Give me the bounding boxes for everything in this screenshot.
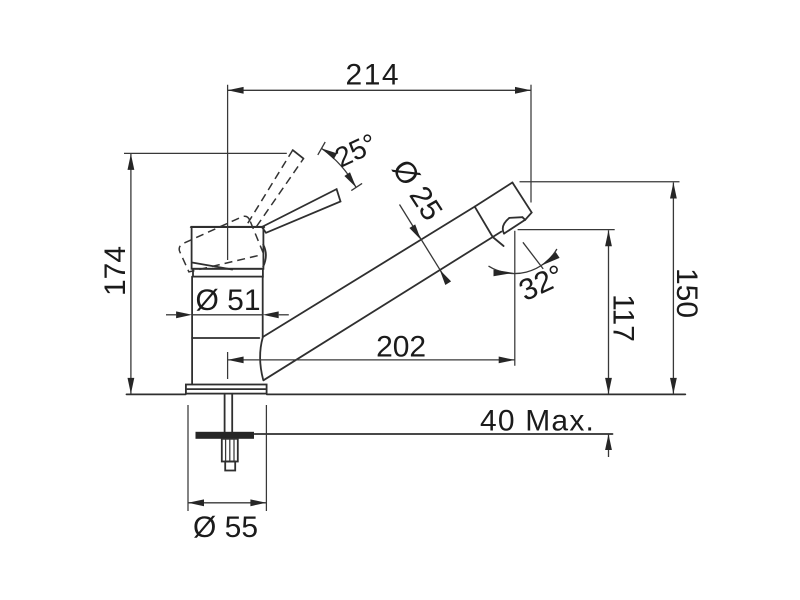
dashed tilted head right edge bbox=[250, 222, 264, 257]
spout outlet face bbox=[512, 183, 531, 220]
dim 40 Max bbox=[480, 405, 612, 458]
dim 174 bbox=[99, 153, 287, 394]
washer plate bbox=[196, 432, 255, 439]
head pivot boss arc bbox=[263, 245, 266, 267]
dim 32 degrees bbox=[489, 242, 570, 308]
counter max-thickness line bbox=[255, 433, 613, 435]
solid handle lever bbox=[262, 189, 341, 233]
dashed tilted head outline (raised position) bbox=[179, 216, 262, 272]
aerator exit face bbox=[504, 220, 525, 234]
aerator notch bbox=[522, 217, 525, 220]
spout tube lower edge bbox=[263, 232, 501, 381]
body rear concave curve bbox=[260, 337, 263, 380]
faucet head body bbox=[191, 227, 264, 270]
spout tube upper edge bbox=[263, 207, 475, 338]
base flange bbox=[186, 385, 267, 394]
dashed handle lever (raised position) bbox=[248, 150, 304, 226]
dim 150 bbox=[520, 182, 704, 394]
dim diameter 51 bbox=[166, 284, 289, 318]
dim 25 degrees bbox=[318, 127, 382, 190]
head lower ring bbox=[193, 269, 263, 277]
svg-text:117: 117 bbox=[607, 294, 640, 342]
dim 117 bbox=[518, 230, 640, 394]
dim 214 bbox=[228, 58, 531, 202]
dim diameter 55 bbox=[188, 405, 266, 544]
dim 202 bbox=[228, 231, 515, 366]
aerator under tick bbox=[493, 237, 504, 246]
aerator top line bbox=[509, 216, 522, 219]
svg-text:174: 174 bbox=[99, 246, 132, 296]
fastening nut bbox=[222, 439, 238, 462]
aerator left arc bbox=[503, 218, 510, 234]
svg-text:202: 202 bbox=[376, 331, 426, 364]
centerline axis bbox=[227, 85, 229, 379]
spout end cap top edge bbox=[475, 183, 513, 207]
svg-text:Ø 51: Ø 51 bbox=[195, 284, 260, 317]
svg-text:Ø 55: Ø 55 bbox=[193, 511, 258, 544]
svg-text:40 Max.: 40 Max. bbox=[480, 405, 595, 438]
dim diameter 25 bbox=[385, 154, 451, 285]
svg-text:150: 150 bbox=[670, 268, 703, 318]
spout seam line bbox=[475, 207, 493, 237]
threaded shank bbox=[225, 394, 233, 432]
svg-text:214: 214 bbox=[346, 58, 401, 91]
bolt end bbox=[225, 462, 235, 471]
faucet body column bbox=[192, 277, 263, 385]
mounting surface line bbox=[127, 393, 686, 395]
